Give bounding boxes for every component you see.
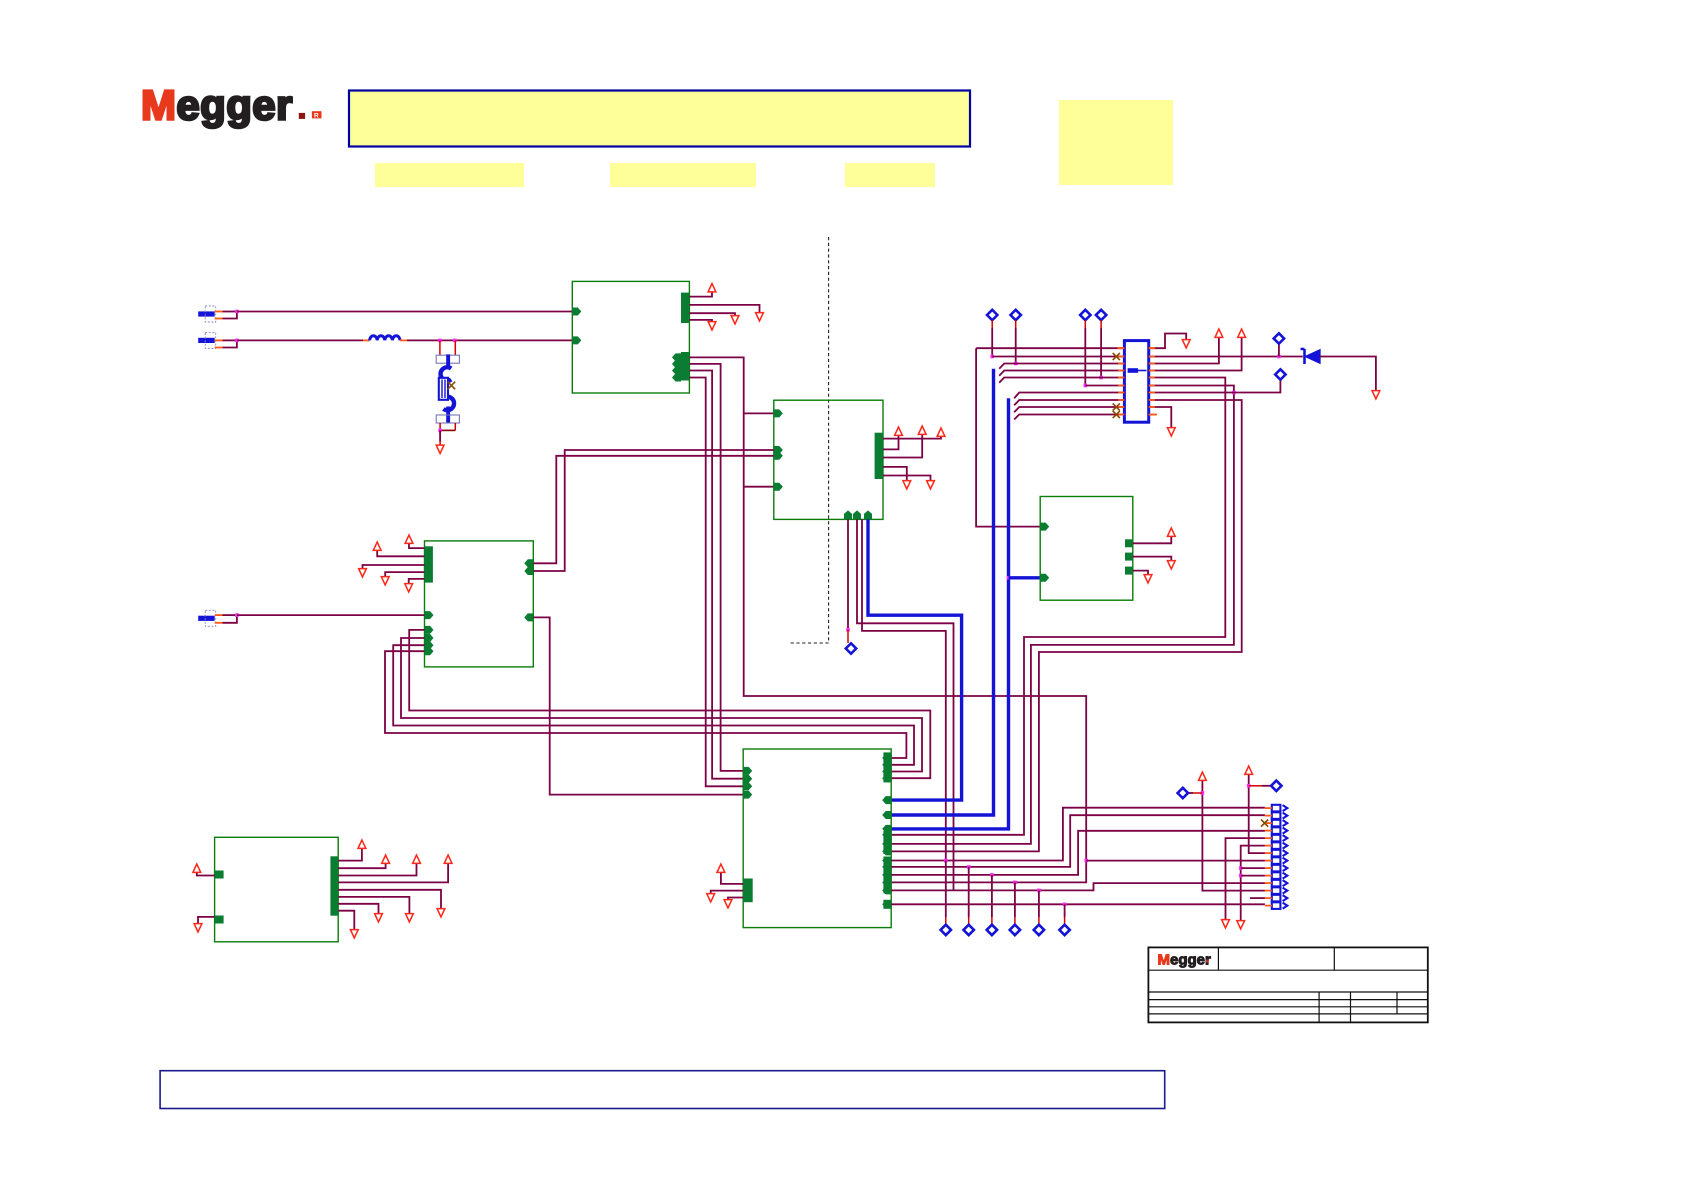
net diamond D-a — [987, 310, 997, 320]
wire U1.o3 to U5 pin L2 — [689, 371, 743, 779]
power arrow down U1 c — [708, 322, 716, 330]
net diamond U2 bottom — [846, 643, 856, 653]
U4 right pins — [524, 559, 533, 567]
wire U1.o1 to U2 pins and bottom bus — [689, 357, 1086, 882]
wire stub diamond a — [1193, 792, 1202, 794]
net diamond D-c — [1080, 310, 1090, 320]
wire U2 pwr4 — [883, 467, 907, 480]
wire P2 row6 vertical net — [1241, 846, 1265, 920]
U3 pin L2 (bus) — [1040, 574, 1049, 582]
wire U4.r2 to U2 L2 — [533, 450, 774, 571]
wire U6 r8 — [338, 911, 354, 929]
IC U4 — [425, 541, 534, 667]
wire U2.b3 long down-right — [862, 519, 946, 860]
wire L1 to U1 pin 2 — [407, 339, 572, 341]
wire K1 R-row6 big L to U5 — [891, 386, 1234, 844]
power arrow down U2 a — [903, 481, 911, 489]
wire K1 row1 from bus corner — [976, 347, 1124, 349]
U5 left pins — [743, 767, 752, 775]
power arrow up U2 c — [918, 426, 926, 434]
wire P2 row7 to power — [1249, 775, 1265, 853]
blue net U2 to U5 — [868, 519, 962, 800]
wire U6 r4 — [338, 864, 448, 882]
junction D-d — [1099, 376, 1103, 380]
wire U5 row 874.9 to connector riser — [891, 831, 1265, 875]
wire K1 row8 — [1014, 400, 1124, 405]
wire D-c drop — [1084, 320, 1086, 328]
power arrow down P2 a — [1222, 920, 1230, 928]
svg-text:R: R — [314, 112, 319, 119]
wire U4 pwr3 — [363, 565, 425, 568]
junction drop 3 — [990, 873, 994, 877]
wire U5 bottom row to connector — [891, 903, 1265, 905]
wire U4.p3 to U5 R-group — [393, 645, 914, 765]
junction P2 r9 — [1239, 866, 1243, 870]
wire K1 R-row10 stub — [1149, 414, 1157, 416]
wire U1.o2 to U5 pin L1 — [689, 364, 743, 771]
wire P2 row8 from bus junction — [1086, 860, 1265, 862]
U4 pin input — [425, 611, 434, 619]
U2 pin L1 — [774, 409, 783, 417]
svg-text:Megger: Megger — [141, 82, 293, 129]
power arrow up K1 a — [1215, 329, 1223, 337]
relay K1 body — [1124, 341, 1148, 423]
wire J2 to inductor L1 — [237, 339, 363, 341]
wire U5 row 860.5 to connector riser — [891, 808, 1265, 861]
U5 right pin block C — [883, 857, 891, 894]
subtitle yellow cell 3 — [845, 163, 935, 187]
wire U2 pwr2 — [883, 436, 899, 449]
power arrow up U2 a — [937, 428, 945, 436]
title banner (yellow, blue border) — [349, 91, 970, 147]
wire U4.p1 to U5 R-group — [409, 630, 930, 778]
IC U5 — [743, 749, 891, 928]
junction P2 r10 — [1239, 874, 1243, 878]
power arrow down U3 b — [1144, 575, 1152, 583]
junction J1 — [235, 310, 239, 314]
wire U6 r1 — [338, 849, 362, 861]
wire U5 row 882.4 drops — [1013, 881, 1017, 885]
net diamond K1-b — [1275, 369, 1285, 379]
wire U3 pwr3 — [1133, 571, 1148, 574]
power arrow up U6 L — [193, 864, 201, 872]
wire K1 row10 — [1014, 415, 1124, 420]
U1 pin 2 — [572, 336, 581, 344]
IC U6 — [215, 837, 339, 942]
wire stub to diamond — [1278, 344, 1280, 357]
power arrow down U6 L — [194, 924, 202, 932]
diode D1 — [1306, 350, 1320, 363]
wire K1 R-row5 big L to U5 — [891, 378, 1225, 835]
wire J1 to U1 pin 1 — [237, 311, 572, 313]
wire K1 R-row3 — [1149, 338, 1219, 364]
wire K1 row7 — [1014, 393, 1124, 399]
wire J3 to U4 — [237, 614, 425, 616]
junction D-b — [1014, 362, 1018, 366]
K1 pin stubs — [1118, 347, 1124, 349]
power arrow down U5 a — [707, 894, 715, 902]
power arrow up U4 a — [405, 535, 413, 543]
junction drop 2 — [967, 865, 971, 869]
wire P2 row12 from riser — [1202, 781, 1265, 891]
power arrow down U6 b — [406, 914, 414, 922]
wire P2 row5 to ground — [1226, 838, 1265, 920]
wire K1 row3 — [999, 364, 1124, 369]
wire U2 bottom to net flag — [847, 519, 849, 629]
wire K1 R-row7 to diamond — [1149, 380, 1281, 393]
net diamond drop5 — [1034, 925, 1044, 935]
wire diode to ground arrow — [1320, 357, 1376, 391]
junction drop 5 — [1037, 889, 1041, 893]
wire U1 VCC — [689, 293, 712, 297]
wire drop 1 to diamond — [945, 861, 947, 918]
IC U1 — [572, 281, 689, 393]
wire U6 r2 — [338, 864, 385, 868]
U2 right power pin block — [875, 433, 883, 479]
IC U2 — [774, 400, 883, 519]
power arrow up U1 — [708, 284, 716, 292]
power arrow down K1 row9 — [1167, 428, 1175, 436]
junction bus2 to U3 — [1007, 576, 1011, 580]
wire U5 pwr dn1 — [711, 891, 744, 893]
no-connect x K1 row9 — [1113, 403, 1120, 410]
power arrow down U4 a — [359, 569, 367, 577]
no-connect x P2 row3 — [1261, 820, 1268, 827]
wire P2 row9 branch — [1241, 867, 1265, 869]
wire U2 pwr3 — [883, 435, 922, 458]
wire U4 pwr2 — [377, 551, 424, 556]
net diamond drop1 — [941, 925, 951, 935]
power arrow down U5 b — [724, 900, 732, 908]
svg-text:Megger: Megger — [1158, 952, 1212, 969]
wire bus riser to U3 — [976, 348, 1040, 526]
wire U6 r3 — [338, 864, 416, 876]
junction R-row7 cross — [1232, 391, 1236, 395]
wire D-a drop — [991, 320, 993, 328]
subtitle yellow cell 1 — [375, 163, 524, 187]
power arrow up K1 b — [1238, 329, 1246, 337]
power arrow down U1 a — [756, 313, 764, 321]
wire U2.b2 long down-right — [857, 519, 954, 890]
power arrow up U6 b — [382, 855, 390, 863]
wire branch to U2 pin 1 — [744, 412, 774, 414]
wire drop 3 to diamond — [991, 875, 993, 917]
connector J3 — [198, 616, 215, 621]
revision yellow box top-right — [1059, 100, 1173, 185]
wire lamp feed stubs — [439, 340, 441, 355]
wire U5 row 890.4 to connector — [891, 883, 1265, 890]
IC U3 — [1040, 497, 1133, 601]
wire J2 pin stubs — [215, 339, 223, 341]
net diamond D-b — [1011, 310, 1021, 320]
wire U6 r5 — [338, 890, 441, 908]
U2 pin L3 — [774, 452, 783, 460]
junction lamp tap right — [453, 339, 457, 343]
wire K1 row5 — [999, 378, 1124, 383]
wire K1 R-row9 — [1149, 407, 1172, 427]
wire U4.r1 to U2 L3 — [533, 456, 774, 564]
blue branch to U3 — [1009, 576, 1041, 579]
wire U2 pwr1 — [883, 437, 941, 439]
footer note box — [160, 1071, 1165, 1109]
wire K1 R-row4 — [1149, 338, 1242, 371]
power arrow up U3 — [1167, 528, 1175, 536]
U2 pin L4 — [774, 483, 783, 491]
junction D-c — [1084, 384, 1088, 388]
wire U5 pwr up — [721, 873, 743, 884]
wire drop 5 to diamond — [1038, 890, 1040, 917]
lamp F1 bottom terminal box — [436, 415, 459, 423]
wire K1 R-row8 big L to U5 — [891, 400, 1241, 851]
wire stub diamond b — [1249, 785, 1262, 787]
wire P2 row10 branch — [1241, 875, 1265, 877]
U4 left power pin block — [425, 546, 433, 582]
power arrow down lamp — [436, 445, 444, 453]
wire K1 row9 — [1014, 407, 1124, 412]
junction P2 diamond b — [1247, 784, 1251, 788]
U2 pin L2 — [774, 446, 783, 454]
U5 right pin block B — [883, 831, 891, 854]
wire U1 pwr3 — [689, 313, 735, 315]
U1 right power pin block — [681, 293, 689, 323]
wire drop 2 to diamond — [968, 867, 970, 917]
U5 right pin block A — [883, 752, 891, 782]
inductor L1 — [363, 339, 370, 341]
U4 lower-left pins — [425, 626, 434, 634]
subtitle yellow cell 2 — [610, 163, 756, 187]
wire U4 pwr1 — [409, 544, 425, 548]
wire K1 R-row1 hook — [1149, 334, 1187, 349]
wire U2 pwr5 — [883, 476, 931, 481]
wire K1 R-row2 with diode — [1149, 356, 1303, 358]
wire U6 L1 — [197, 873, 215, 876]
wire D-b drop — [1015, 320, 1017, 328]
wire J3 pin stubs — [215, 614, 223, 616]
wire U1 pwr2 — [689, 305, 759, 312]
junction P2 diamond a — [1201, 791, 1205, 795]
power arrow up U6 d — [444, 855, 452, 863]
power arrow down U1 b — [731, 316, 739, 324]
wire K1 row4 — [999, 371, 1124, 376]
net diamond D-d — [1096, 310, 1106, 320]
wire P2 row13 stub — [1250, 897, 1265, 899]
power arrow up U5 — [717, 864, 725, 872]
blue bus 2 — [891, 398, 1008, 829]
junction lamp tap left — [438, 339, 442, 343]
U3 right pins — [1125, 539, 1133, 547]
connector P2 body — [1272, 805, 1281, 812]
wire K1 row2 — [992, 356, 1124, 358]
junction drop 1 — [944, 859, 948, 863]
wire U5 row 866.9 to connector riser — [891, 815, 1265, 867]
U5 left power block — [743, 879, 753, 903]
power arrow up P2 a — [1245, 766, 1253, 774]
U5 bottom-right pin — [882, 900, 891, 908]
U6 right pin block — [330, 856, 338, 915]
wire U6 L2 — [198, 917, 215, 923]
net diamond K1-a — [1274, 333, 1284, 343]
wire U4 pwr5 — [409, 579, 425, 583]
power arrow up P2 c — [1199, 772, 1207, 780]
dashed partition line — [789, 237, 829, 643]
junction J2 — [235, 339, 239, 343]
junction diode net — [1277, 355, 1281, 359]
U2 bottom pins — [844, 510, 852, 519]
power arrow down U6 d — [350, 930, 358, 938]
power arrow down U6 c — [375, 914, 383, 922]
wire U5 pwr dn2 — [728, 898, 743, 900]
title block logo cell — [1217, 947, 1219, 970]
no-connect x K1 row10 — [1113, 411, 1120, 418]
junction J3 — [235, 613, 239, 617]
power arrow down P2 b — [1237, 921, 1245, 929]
power arrow up U6 a — [358, 840, 366, 848]
no-connect x K1 row2 — [1113, 353, 1120, 360]
wire U4.p2 to U5 R-group — [401, 638, 922, 772]
lamp F1 no-connect x — [448, 382, 456, 390]
lamp F1 top terminal box — [436, 355, 459, 363]
wire U3 pwr1 — [1133, 537, 1172, 543]
title block frame — [1148, 947, 1427, 1022]
power arrow up U2 b — [895, 427, 903, 435]
wire U1.o4 to U5 pin L3 — [689, 378, 743, 787]
power arrow down U6 a — [437, 909, 445, 917]
wire J1 pin stubs — [215, 311, 223, 313]
wire U4.p4 to U5 R-group — [385, 651, 906, 758]
junction bus crossing — [1084, 859, 1088, 863]
power arrow down K1 hook — [1182, 340, 1190, 348]
wire U4 pwr4 — [385, 572, 424, 576]
wire U6 r7 — [338, 904, 378, 913]
wire D-d drop — [1100, 320, 1102, 328]
net diamond P2-b — [1271, 781, 1281, 791]
power arrow down U4 c — [405, 584, 413, 592]
wire branch to U2 pin 4 — [744, 486, 774, 488]
connector J2 — [198, 338, 215, 343]
power arrow up U4 b — [373, 542, 381, 550]
wire lamp to ground — [439, 423, 441, 430]
connector J1 — [198, 311, 215, 316]
wire K1 row6 — [1085, 385, 1124, 387]
U1 pin 1 — [572, 308, 581, 316]
U6 left pin 2 — [215, 916, 224, 924]
U1 output pin block — [681, 352, 689, 381]
junction drop 6 — [1063, 903, 1067, 907]
connector P2 pin stubs — [1265, 807, 1272, 809]
title block grid — [1148, 991, 1427, 993]
junction D-a — [990, 355, 994, 359]
power arrow down U4 b — [381, 577, 389, 585]
net diamond drop2 — [964, 925, 974, 935]
wire U6 r6 — [338, 897, 409, 913]
U6 left pin 1 — [215, 871, 224, 879]
power arrow down U3 a — [1167, 561, 1175, 569]
power arrow down diode net — [1372, 391, 1380, 399]
power arrow down U2 b — [927, 481, 935, 489]
net diamond drop6 — [1059, 925, 1069, 935]
wire U4.r3 to U5 pin L4 — [533, 617, 743, 794]
U5 blue pins — [882, 796, 891, 804]
wire U3 pwr2 — [1133, 557, 1172, 560]
power arrow up U6 c — [413, 855, 421, 863]
net diamond drop4 — [1010, 925, 1020, 935]
U3 pin L1 — [1040, 523, 1049, 531]
lamp F1 body — [441, 367, 452, 381]
wire drop 6 to diamond — [1064, 904, 1066, 917]
net diamond P2-a — [1178, 788, 1188, 798]
blue bus 1 — [891, 369, 993, 815]
net diamond drop3 — [987, 925, 997, 935]
wire U1 pwr4 — [689, 320, 712, 321]
